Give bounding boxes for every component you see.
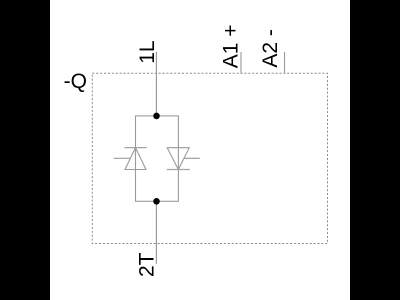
thyristor V2 triangle bbox=[167, 148, 189, 170]
wire 2T bottom bbox=[155, 201, 157, 263]
junction node bottom bbox=[153, 198, 160, 205]
svg-text:1L: 1L bbox=[136, 40, 159, 63]
junction node top bbox=[153, 113, 160, 120]
svg-text:A1 +: A1 + bbox=[219, 24, 242, 68]
thyristor V1 cathode bar bbox=[124, 147, 146, 149]
terminal stub A2 bbox=[284, 52, 286, 73]
branch rectangle wires (antiparallel pair) bbox=[136, 116, 179, 201]
enclosure dashed outline -Q bbox=[92, 73, 327, 243]
thyristor V1 triangle bbox=[125, 148, 146, 170]
wire 1L top bbox=[155, 52, 157, 116]
terminal stub A1 bbox=[240, 52, 242, 73]
svg-text:-Q: -Q bbox=[64, 70, 87, 93]
svg-text:A2 -: A2 - bbox=[259, 29, 282, 68]
thyristor V1 gate bbox=[114, 157, 131, 159]
white drawing panel bbox=[50, 0, 350, 300]
thyristor V2 cathode bar bbox=[167, 169, 190, 171]
thyristor V2 gate bbox=[184, 157, 200, 159]
svg-text:2T: 2T bbox=[135, 252, 158, 277]
